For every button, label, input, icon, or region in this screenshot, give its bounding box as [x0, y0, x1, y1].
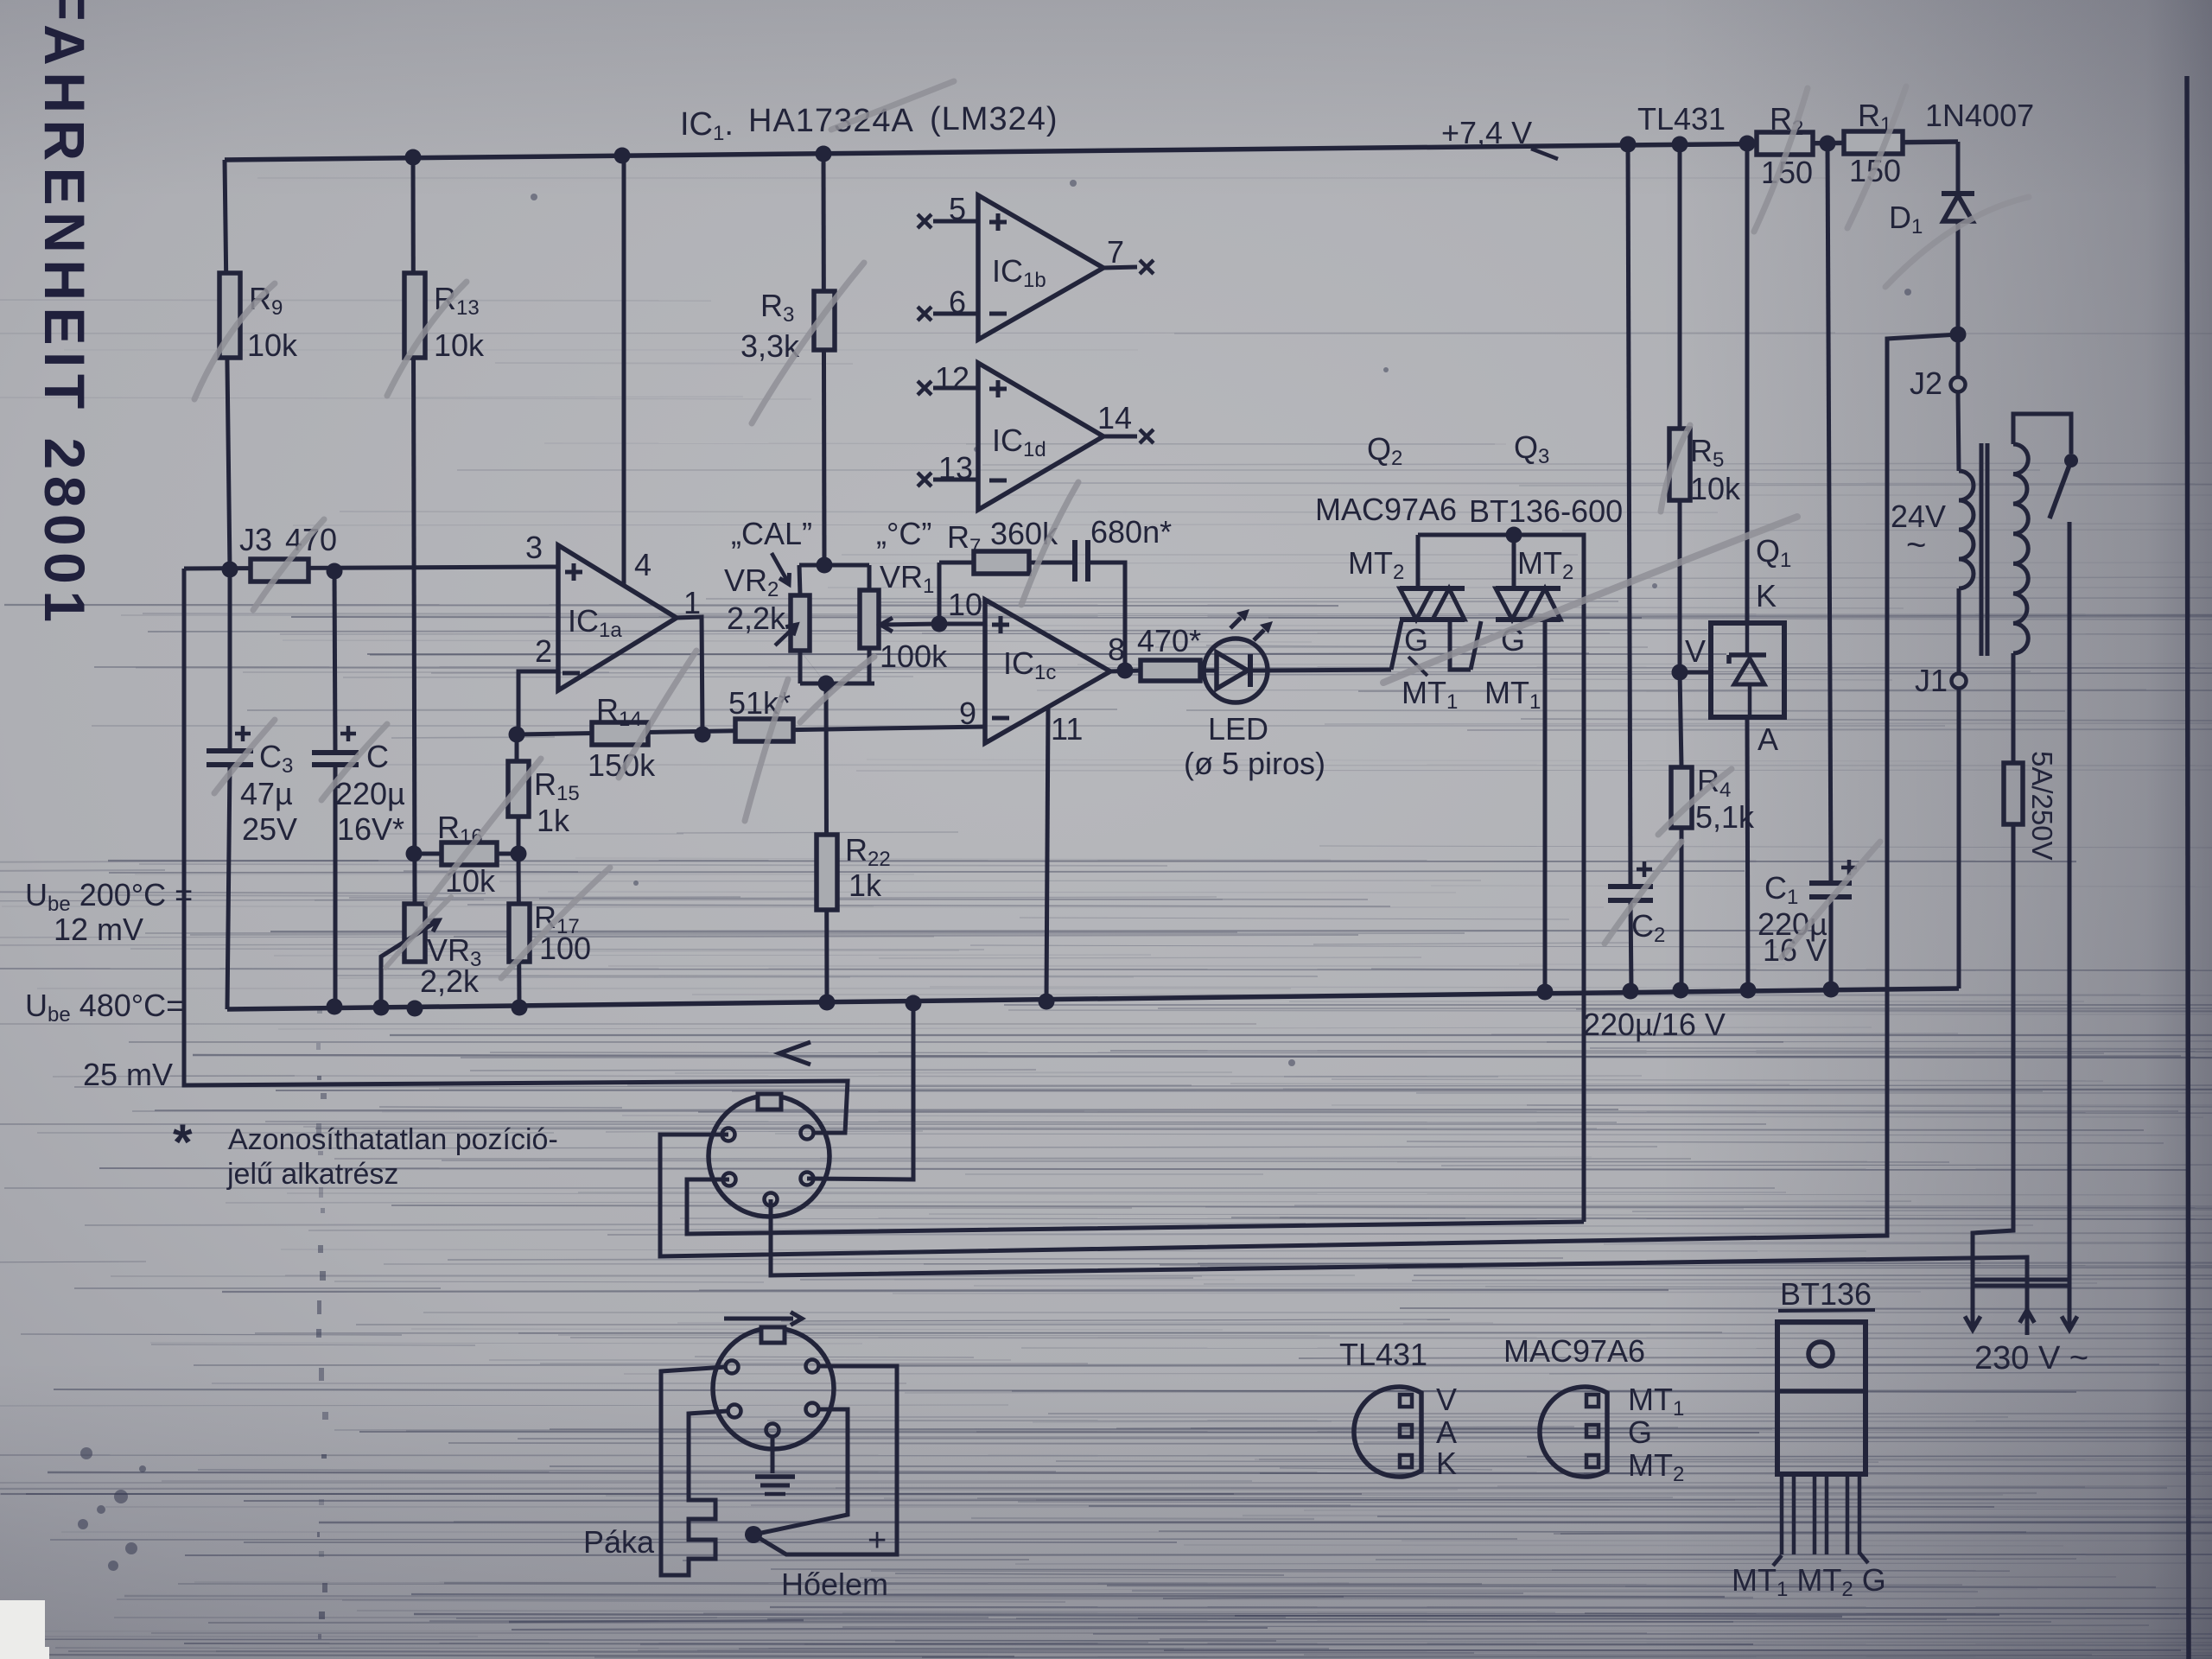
svg-text:680n*: 680n* — [1090, 514, 1172, 550]
wire +7.4V top rail — [225, 142, 1958, 160]
potentiometer VR3 2,2k — [404, 904, 425, 962]
svg-text:16V*: 16V* — [337, 811, 404, 847]
svg-text:100k: 100k — [880, 639, 948, 674]
svg-text:TL431: TL431 — [1637, 101, 1726, 137]
resistor R9 — [219, 273, 240, 358]
svg-text:Hőelem: Hőelem — [781, 1567, 888, 1602]
wire DIN pin to feed — [813, 1131, 845, 1135]
transformer 230V primary — [2013, 444, 2028, 653]
wire to J2 — [1956, 334, 1961, 377]
connector DIN upper — [709, 1096, 829, 1217]
wire pin7 — [1103, 267, 1137, 268]
mains separation bars — [1973, 1278, 2071, 1282]
wire pin11 to ground — [1046, 707, 1048, 1001]
wire R4 top lead — [1680, 672, 1681, 767]
wire pin8 to 470 — [1110, 671, 1141, 671]
op-amp IC1c — [985, 600, 1110, 743]
svg-text:100: 100 — [539, 931, 591, 966]
svg-text:12 mV: 12 mV — [54, 912, 143, 947]
wire R22 column — [826, 683, 827, 1002]
resistor 51k* — [735, 719, 793, 741]
resistor J3 470 — [251, 559, 308, 582]
svg-text:10k: 10k — [247, 327, 298, 363]
wire thermo ground stem — [771, 1437, 775, 1473]
svg-text:9: 9 — [959, 696, 976, 731]
wire pin5 — [933, 219, 978, 224]
resistor 470* — [1141, 660, 1200, 681]
wire R15 top lead — [515, 734, 519, 761]
svg-text:FAHRENHEIT 28001: FAHRENHEIT 28001 — [33, 0, 97, 629]
resistor R7 360k — [974, 551, 1029, 574]
node rail dots left — [327, 999, 343, 1015]
svg-text:J1: J1 — [1915, 663, 1948, 698]
wire R5 to V node — [1678, 500, 1682, 672]
wire lineB J2 to DIN — [660, 334, 1958, 1256]
wire R16 row — [414, 852, 518, 856]
LED (d5 red) — [1204, 639, 1268, 702]
wire R9 column — [225, 160, 230, 569]
svg-text:+7,4 V: +7,4 V — [1441, 115, 1532, 150]
wire TL431 A to rail — [1747, 717, 1748, 990]
svg-text:G: G — [1404, 622, 1428, 658]
wire R3 column — [823, 154, 824, 565]
resistor R13 — [404, 273, 425, 358]
wire rail to D1 — [1956, 142, 1961, 194]
wire VR2 bottom lead — [798, 651, 803, 683]
svg-text:J2: J2 — [1910, 365, 1942, 401]
frame right border — [2187, 76, 2189, 1659]
svg-text:J3: J3 — [239, 522, 272, 557]
svg-text:A: A — [1758, 721, 1778, 757]
wire pin13 — [933, 478, 978, 482]
wire VR1 top lead — [868, 565, 872, 590]
svg-text:TL431: TL431 — [1339, 1337, 1427, 1372]
wire primary to switch — [2013, 414, 2071, 454]
wire G annotation — [1408, 657, 1427, 676]
svg-text:25V: 25V — [242, 811, 297, 847]
wire thermocouple — [753, 1366, 897, 1554]
node pin1/R14 — [695, 727, 711, 743]
wire Q3 MT2 lead — [1512, 535, 1516, 588]
wire R15 bottom lead — [517, 817, 521, 854]
wire VR1 bottom lead — [868, 648, 872, 683]
svg-text:14: 14 — [1097, 400, 1132, 435]
page corner — [0, 1600, 49, 1659]
svg-text:47µ: 47µ — [240, 776, 293, 811]
wire Q2 MT1 to Q3 gate — [1450, 620, 1471, 670]
wire MT2 top bar — [1418, 535, 1584, 1222]
wire winding to J1 — [1957, 588, 1961, 673]
wire IC1a pin4 to rail — [622, 156, 626, 585]
wire TL431 K lead — [1745, 143, 1750, 623]
svg-text:„CAL”: „CAL” — [731, 516, 812, 551]
svg-text:K: K — [1436, 1446, 1457, 1481]
svg-text:1N4007: 1N4007 — [1925, 98, 2034, 133]
svg-text:10: 10 — [948, 587, 982, 622]
pencil marks — [194, 283, 275, 399]
svg-text:~: ~ — [1906, 526, 1926, 564]
resistor R1 150 — [1844, 131, 1903, 154]
svg-text:2: 2 — [535, 633, 552, 669]
op-amp IC1b — [978, 195, 1103, 340]
svg-text:1k: 1k — [849, 868, 882, 903]
wire 680n to pin8 — [1088, 563, 1125, 671]
wire IC1a pin1 output — [677, 617, 702, 734]
wire LED to Q2 gate — [1268, 670, 1391, 671]
wire VR bridge top bar — [799, 563, 869, 568]
svg-text:V: V — [1436, 1382, 1457, 1417]
wire TL431 V — [1680, 671, 1711, 675]
svg-text:(LM324): (LM324) — [930, 101, 1058, 137]
wire VR2 wiper arrow — [775, 626, 795, 645]
wire 7.4V pointer — [1531, 149, 1558, 159]
svg-text:11: 11 — [1051, 711, 1083, 747]
resistor R14 150k — [592, 722, 648, 745]
svg-text:470*: 470* — [1137, 623, 1201, 658]
wire pin10 — [939, 622, 985, 626]
svg-text:*: * — [173, 1115, 193, 1171]
resistor R16 10k — [442, 842, 497, 865]
wire VR1 wiper — [881, 624, 939, 625]
svg-text:8: 8 — [1108, 632, 1125, 667]
svg-text:IC1​.: IC1​. — [680, 106, 734, 145]
svg-text:10k: 10k — [434, 327, 485, 363]
wire J3 row / pin3 net — [184, 567, 558, 569]
svg-text:+: + — [868, 1522, 887, 1559]
svg-text:4: 4 — [634, 547, 652, 582]
wire primary to fuse — [2012, 653, 2016, 763]
svg-text:230 V ~: 230 V ~ — [1974, 1340, 2088, 1376]
svg-text:„°C”: „°C” — [876, 516, 931, 551]
wire C2 column — [1628, 144, 1630, 886]
wire left outer vertical — [184, 569, 848, 1133]
connector DIN lower — [713, 1328, 834, 1449]
svg-text:25 mV: 25 mV — [83, 1057, 173, 1092]
resistor R2 150 — [1757, 132, 1813, 155]
wire R7 to 680n — [1029, 561, 1075, 565]
svg-text:BT136: BT136 — [1780, 1276, 1872, 1312]
wire Q3 MT1 to ground rail — [1543, 620, 1548, 992]
capacitor C2 — [1608, 884, 1653, 889]
capacitor 680n* — [1072, 540, 1077, 582]
wire pin6 — [933, 312, 978, 316]
svg-text:Azonosíthatatlan pozíció-: Azonosíthatatlan pozíció- — [228, 1123, 558, 1156]
wire pin14 — [1103, 435, 1137, 439]
svg-text:jelű alkatrész: jelű alkatrész — [226, 1158, 398, 1191]
wire J1 to ground rail — [1957, 689, 1961, 988]
svg-text:K: K — [1756, 578, 1777, 613]
svg-text:220µ: 220µ — [335, 776, 405, 811]
wire R4 bottom lead — [1680, 828, 1684, 990]
svg-text:(ø 5 piros): (ø 5 piros) — [1184, 746, 1325, 781]
node J3 right — [327, 563, 343, 580]
wire C3 top lead — [228, 569, 232, 751]
wire R14/51k row — [517, 727, 985, 734]
node ground rail dots right — [1537, 984, 1554, 1001]
transformer 24V secondary — [1959, 471, 1974, 588]
wire Q2 gate stub — [1391, 621, 1402, 670]
svg-text:LED: LED — [1208, 711, 1268, 747]
wire feedback to R7 — [939, 561, 974, 565]
wire 470 to LED — [1200, 669, 1205, 673]
node R14 left — [509, 727, 525, 743]
node D1/J2 junction — [1950, 327, 1967, 343]
wire ground rail — [227, 988, 1959, 1009]
wire Q3 gate stub — [1471, 621, 1481, 670]
svg-text:BT136-600: BT136-600 — [1469, 493, 1623, 529]
wire ground drop to DIN — [807, 1003, 913, 1179]
svg-text:2,2k: 2,2k — [727, 601, 786, 636]
svg-text:1k: 1k — [537, 803, 570, 838]
svg-text:2,2k: 2,2k — [420, 963, 480, 999]
svg-text:MAC97A6: MAC97A6 — [1315, 492, 1457, 527]
arrow cable direction — [724, 1317, 793, 1321]
node top rail junction R13 — [405, 149, 422, 166]
wire C3 bottom lead — [227, 765, 230, 1009]
wire R5 top lead — [1678, 144, 1682, 429]
svg-text:10k: 10k — [1690, 471, 1741, 506]
wire switch arm — [2050, 461, 2071, 518]
op-amp IC1d — [978, 363, 1103, 510]
wire lineA MT2s to DIN — [687, 1179, 1584, 1234]
wire C bottom lead — [334, 765, 338, 1007]
wire C top lead — [334, 571, 335, 753]
wire wiper to feedback row — [938, 563, 942, 624]
wire VR3 wiper return — [381, 921, 437, 1007]
wire VR2 top lead — [799, 565, 800, 595]
node rail dots right — [1620, 137, 1637, 153]
wire Paka heater loop — [661, 1367, 728, 1575]
wire lineC thermo to mains — [771, 1199, 2027, 1335]
svg-text:Páka: Páka — [583, 1524, 655, 1560]
svg-text:220µ/16 V: 220µ/16 V — [1583, 1007, 1726, 1042]
svg-text:V: V — [1685, 633, 1706, 669]
wire J2 to winding — [1958, 392, 1959, 471]
svg-text:5A/250V: 5A/250V — [2026, 751, 2058, 861]
svg-text:MAC97A6: MAC97A6 — [1503, 1333, 1645, 1369]
wire R17 column — [518, 854, 519, 1007]
svg-text:12: 12 — [935, 360, 969, 396]
transformer core — [1980, 443, 1984, 656]
wire CAL pointer — [772, 553, 787, 581]
wire R13/VR3 column — [413, 157, 415, 904]
node J3 left — [222, 562, 238, 578]
svg-text:7: 7 — [1107, 234, 1124, 270]
wire VR bridge bottom bar — [800, 682, 874, 686]
svg-text:A: A — [1436, 1414, 1457, 1450]
svg-text:3: 3 — [525, 530, 543, 565]
wire switch to mains — [2068, 522, 2072, 1325]
wire Q2 MT2 lead — [1416, 535, 1421, 588]
op-amp IC1a — [558, 545, 677, 690]
capacitor C1 220u 16V — [1827, 143, 1831, 883]
svg-text:G: G — [1628, 1414, 1652, 1450]
wire DIN pin stub — [660, 1134, 722, 1135]
wire IC1a pin2 — [518, 671, 558, 734]
wire D1 to J2 node — [1956, 221, 1961, 334]
potentiometer VR2 2,2k CAL — [799, 565, 826, 683]
cable mark — [779, 1042, 810, 1065]
wire pin12 — [933, 386, 978, 391]
svg-text:MT1​ MT2​ G: MT1​ MT2​ G — [1732, 1562, 1886, 1601]
